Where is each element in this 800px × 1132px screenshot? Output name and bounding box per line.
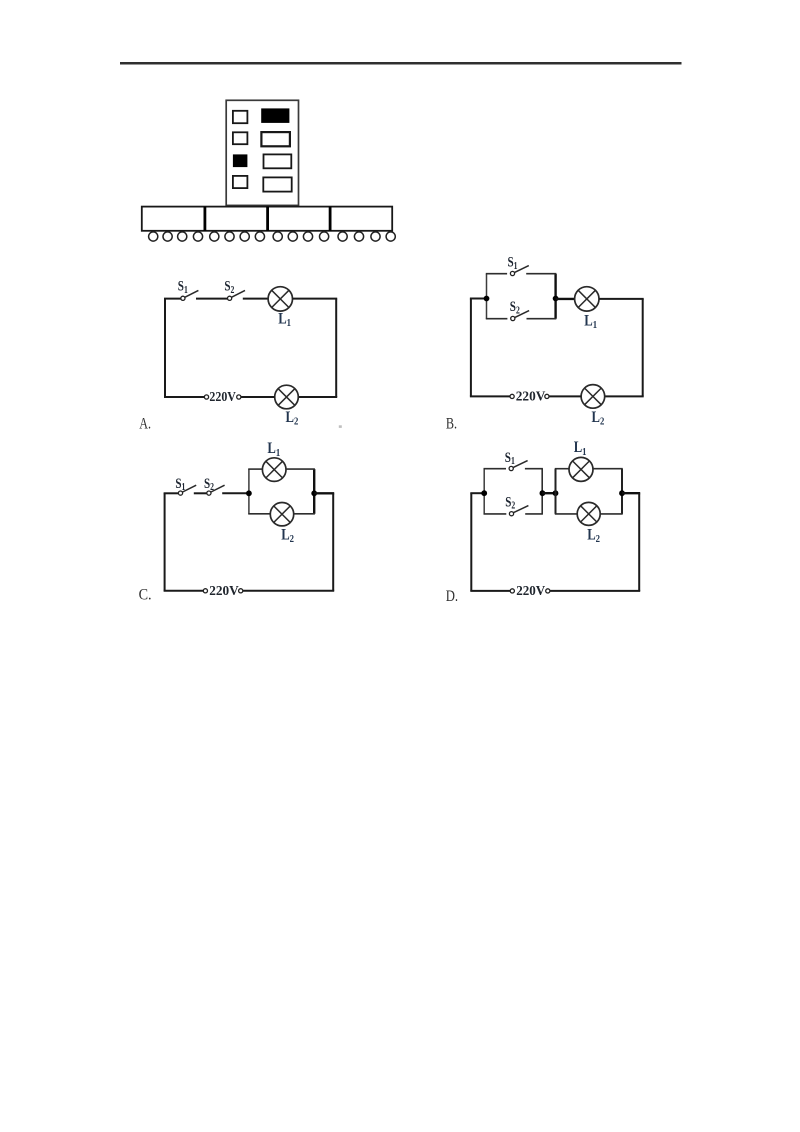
wire junction to right corner (C) bbox=[314, 492, 334, 494]
junction node lamp-box left (D) bbox=[553, 490, 559, 496]
junction node left (C) bbox=[246, 490, 252, 496]
wire left vertical (B) bbox=[470, 299, 472, 397]
svg-text:S1: S1 bbox=[175, 476, 185, 493]
lamp box top branch wire right (D) bbox=[593, 468, 623, 470]
wire left stub (B) bbox=[470, 298, 487, 300]
wire top segment 2 (A) bbox=[196, 298, 228, 300]
svg-text:B.: B. bbox=[446, 416, 457, 433]
building window row3 left (filled black) bbox=[233, 154, 248, 167]
switch S2 (D) bbox=[509, 506, 528, 516]
source terminal right (C) bbox=[239, 589, 243, 593]
svg-text:D.: D. bbox=[446, 588, 458, 605]
wire right vertical (C) bbox=[332, 493, 334, 591]
svg-text:L1: L1 bbox=[267, 440, 280, 459]
trailer divider 3 bbox=[329, 207, 332, 231]
svg-text:S1: S1 bbox=[178, 279, 188, 296]
switch box top branch wire right (B) bbox=[526, 273, 556, 275]
switch S2 (B) bbox=[511, 311, 529, 321]
svg-text:L1: L1 bbox=[574, 439, 587, 458]
lamp L1 (C) bbox=[262, 458, 286, 482]
svg-text:S2: S2 bbox=[505, 494, 515, 511]
switch S1 (D) bbox=[509, 461, 527, 471]
wire bottom right segment (A) bbox=[298, 396, 337, 398]
wire right vertical (A) bbox=[335, 299, 337, 397]
wire top segment 1 (C) bbox=[164, 492, 179, 494]
svg-text:L1: L1 bbox=[584, 313, 597, 332]
lamp box top branch wire left (D) bbox=[555, 468, 569, 470]
wire left vertical (C) bbox=[164, 493, 166, 591]
wire bottom right segment (C) bbox=[243, 590, 334, 592]
wire junction to lamp (B) bbox=[556, 298, 575, 300]
wire bottom left segment (C) bbox=[164, 590, 204, 592]
switch S2 (A) bbox=[228, 290, 246, 300]
source terminal left (B) bbox=[510, 394, 514, 398]
speck near circuit A bbox=[339, 425, 342, 428]
wire top segment 2 (C) bbox=[194, 492, 207, 494]
junction node right (D) bbox=[619, 490, 625, 496]
wire between boxes (D) bbox=[542, 492, 555, 494]
switch box bottom branch wire right (D) bbox=[525, 513, 543, 515]
switch box top branch wire left (B) bbox=[486, 273, 507, 275]
switch S2 (C) bbox=[207, 485, 225, 495]
lamp L1 (D) bbox=[569, 457, 593, 481]
switch box right edge (D) bbox=[541, 469, 543, 514]
trailer divider 2 bbox=[266, 207, 269, 231]
lamp L2 (B) bbox=[581, 385, 605, 409]
svg-text:C.: C. bbox=[139, 586, 152, 603]
svg-text:220V: 220V bbox=[209, 389, 236, 404]
svg-text:220V: 220V bbox=[516, 389, 546, 404]
switch box bottom branch wire left (B) bbox=[486, 318, 508, 320]
svg-text:L2: L2 bbox=[587, 526, 600, 545]
svg-text:S2: S2 bbox=[224, 279, 234, 296]
switch S1 (B) bbox=[510, 266, 528, 276]
wire left vertical (D) bbox=[470, 493, 472, 591]
header rule bbox=[120, 62, 682, 65]
switch S1 (A) bbox=[181, 290, 199, 300]
svg-text:S1: S1 bbox=[505, 450, 515, 467]
building window row2 right bbox=[261, 132, 290, 146]
switch S1 (C) bbox=[178, 485, 196, 495]
wire bottom right segment (D) bbox=[550, 590, 640, 592]
building window row4 right bbox=[263, 177, 291, 191]
building window row4 left bbox=[233, 176, 248, 188]
wire top segment 4 (A) bbox=[293, 298, 338, 300]
svg-text:220V: 220V bbox=[209, 583, 239, 598]
wire top segment 3 (C) bbox=[222, 492, 249, 494]
svg-text:L2: L2 bbox=[592, 409, 605, 428]
wire right vertical (D) bbox=[638, 493, 640, 591]
junction node switch-box right (D) bbox=[540, 490, 546, 496]
wire right vertical (B) bbox=[642, 299, 644, 397]
lamp box bottom branch wire left (D) bbox=[555, 513, 578, 515]
switch box bottom branch wire left (D) bbox=[484, 513, 507, 515]
source terminal right (A) bbox=[237, 395, 241, 399]
building window row1 left bbox=[233, 111, 248, 123]
trailer divider 1 bbox=[203, 207, 206, 231]
lamp box bottom branch wire left (C) bbox=[248, 513, 270, 515]
wire bottom left segment (A) bbox=[164, 396, 204, 398]
junction node right (C) bbox=[311, 490, 317, 496]
lamp box top branch wire right (C) bbox=[286, 468, 315, 470]
lamp L1 (B) bbox=[575, 287, 599, 311]
junction node far left (D) bbox=[481, 490, 487, 496]
trailer bed bbox=[142, 207, 392, 231]
lamp box bottom branch wire right (D) bbox=[600, 513, 623, 515]
building window row2 left bbox=[233, 132, 248, 144]
svg-text:L1: L1 bbox=[278, 310, 291, 329]
building outline bbox=[226, 100, 298, 205]
svg-text:S1: S1 bbox=[508, 255, 518, 272]
source terminal left (D) bbox=[510, 589, 514, 593]
switch box top branch wire right (D) bbox=[525, 468, 543, 470]
switch box right edge (B) bbox=[554, 274, 556, 319]
svg-text:A.: A. bbox=[139, 415, 151, 432]
lamp L1 (A) bbox=[268, 287, 292, 311]
building window row3 right bbox=[264, 154, 292, 168]
lamp box bottom branch wire right (C) bbox=[294, 513, 315, 515]
svg-text:S2: S2 bbox=[204, 476, 214, 493]
svg-text:L2: L2 bbox=[286, 409, 299, 428]
lamp L2 (C) bbox=[270, 503, 293, 526]
wire bottom left segment (D) bbox=[470, 590, 510, 592]
wire lamp to right corner (B) bbox=[599, 298, 644, 300]
wire left stub (D) bbox=[470, 492, 484, 494]
svg-text:L2: L2 bbox=[281, 526, 294, 545]
lamp box right edge (D) bbox=[621, 469, 623, 514]
switch box bottom branch wire right (B) bbox=[527, 318, 557, 320]
junction node left (B) bbox=[484, 296, 490, 302]
wire top segment 1 (A) bbox=[164, 298, 181, 300]
switch box left edge (B) bbox=[486, 274, 488, 319]
lamp L2 (A) bbox=[275, 385, 299, 409]
wire left vertical (A) bbox=[164, 299, 166, 397]
wire bottom mid segment (A) bbox=[241, 396, 275, 398]
wire junction to right corner (D) bbox=[622, 492, 640, 494]
wire top segment 3 (A) bbox=[243, 298, 268, 300]
source terminal right (B) bbox=[545, 394, 549, 398]
source terminal left (C) bbox=[203, 589, 207, 593]
trailer wheels bbox=[149, 232, 396, 241]
source terminal right (D) bbox=[546, 589, 550, 593]
wire bottom right segment (B) bbox=[605, 395, 644, 397]
lamp box left edge (C) bbox=[248, 469, 250, 514]
lamp box right edge (C) bbox=[313, 469, 315, 514]
junction node right (B) bbox=[553, 296, 559, 302]
lamp box left edge (D) bbox=[555, 469, 557, 514]
svg-text:220V: 220V bbox=[516, 583, 545, 598]
switch box top branch wire left (D) bbox=[484, 468, 507, 470]
svg-text:S2: S2 bbox=[510, 299, 520, 316]
lamp box top branch wire left (C) bbox=[248, 468, 262, 470]
lamp L2 (D) bbox=[577, 502, 600, 525]
switch box left edge (D) bbox=[483, 469, 485, 514]
wire bottom mid segment (B) bbox=[549, 395, 581, 397]
building window row1 right (filled black) bbox=[261, 108, 289, 123]
source terminal left (A) bbox=[204, 395, 208, 399]
wire bottom left segment (B) bbox=[470, 395, 510, 397]
